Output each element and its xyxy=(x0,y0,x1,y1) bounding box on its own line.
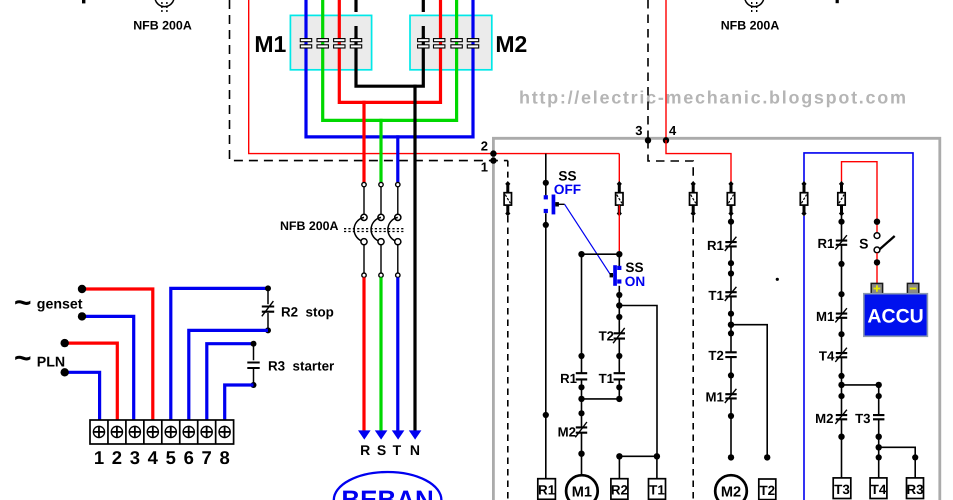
svg-text:2: 2 xyxy=(481,139,488,154)
label NFB1 200A xyxy=(133,19,192,33)
contact symbol K1b xyxy=(616,181,623,216)
wire terminal 5 to R2 contact xyxy=(171,288,268,420)
wire R2 contact to terminal 6 xyxy=(189,330,268,420)
label T2 xyxy=(599,329,614,344)
relay contact T4 group3 (NC) xyxy=(835,348,847,379)
svg-text:R3 starter: R3 starter xyxy=(268,358,335,373)
svg-text:3: 3 xyxy=(635,123,642,138)
relay contact R1 group2 (NC) xyxy=(725,237,737,277)
relay contact R3 (NO starter) xyxy=(247,341,260,388)
push button SS ON xyxy=(610,254,622,286)
svg-text:~: ~ xyxy=(14,342,32,375)
label R2 stop xyxy=(281,304,334,319)
node T3 branch xyxy=(838,382,844,388)
svg-text:PLN: PLN xyxy=(37,354,65,370)
svg-text:T2: T2 xyxy=(759,483,775,498)
node 4 PLN sense xyxy=(663,0,677,144)
node T2 branch xyxy=(728,322,734,328)
wire genset N to terminal 3 xyxy=(78,312,134,420)
svg-text:M2: M2 xyxy=(495,31,527,57)
wire stub top-right xyxy=(836,0,839,3)
battery ACCU xyxy=(864,294,928,337)
source genset symbol xyxy=(14,287,32,320)
wire branch to T3 contact xyxy=(838,382,882,478)
label M1 group2 xyxy=(705,390,723,405)
contact symbol K2b xyxy=(727,181,734,216)
svg-text:BEBAN: BEBAN xyxy=(341,485,433,500)
svg-text:NFB 200A: NFB 200A xyxy=(721,19,780,33)
wire T to load xyxy=(396,277,399,430)
node 1 xyxy=(481,157,497,174)
label M1 xyxy=(254,31,286,57)
svg-text:R2: R2 xyxy=(611,483,628,498)
label T4 group3 xyxy=(819,349,835,364)
svg-text:R1: R1 xyxy=(560,371,577,386)
wire T phase blue bus (M1-M2) xyxy=(306,0,473,137)
wire T2-T1 contact chain xyxy=(616,306,622,399)
label OFF xyxy=(554,182,581,197)
svg-text:T1: T1 xyxy=(599,371,614,386)
wire dashed K1a down xyxy=(507,216,509,500)
contact symbol K3a xyxy=(800,181,807,216)
terminal block 1-8 xyxy=(90,420,234,444)
label T1 xyxy=(599,371,614,386)
svg-text:4: 4 xyxy=(148,447,159,468)
wire red control feed to node 2 xyxy=(249,0,620,154)
source PLN symbol xyxy=(14,342,32,375)
svg-text:R3: R3 xyxy=(906,482,923,497)
svg-text:S: S xyxy=(859,235,868,251)
battery terminal minus xyxy=(907,283,918,293)
svg-text:ACCU: ACCU xyxy=(867,306,923,328)
svg-text:2: 2 xyxy=(112,447,122,468)
svg-text:R1: R1 xyxy=(538,483,556,498)
relay contact M1 group3 (NC) xyxy=(835,308,847,337)
relay contact T3 group3 (NO) xyxy=(873,415,885,460)
watermark xyxy=(519,88,908,108)
wire dashed genset neutral to node 1 xyxy=(230,0,508,161)
svg-text:T3: T3 xyxy=(834,482,850,497)
wire R drop to NFB3 xyxy=(362,101,365,182)
wire dashed node3 to K2a xyxy=(648,140,693,184)
label SS 2 xyxy=(625,260,643,275)
svg-text:T4: T4 xyxy=(871,482,887,497)
label NFB3 200A xyxy=(280,219,339,233)
label S xyxy=(859,235,868,251)
svg-text:R1: R1 xyxy=(707,238,724,253)
label T xyxy=(393,442,402,458)
wire branch to T1 coil xyxy=(619,306,657,457)
relay contact M2 (NC) xyxy=(575,422,587,457)
wire M2 coil column xyxy=(728,214,734,457)
label PLN xyxy=(37,354,65,370)
wire S drop to NFB3 xyxy=(379,119,382,182)
svg-text:1: 1 xyxy=(481,160,488,175)
svg-text:T1: T1 xyxy=(649,483,665,498)
relay contact R1 (NO) xyxy=(576,373,588,390)
node 3 genset sense xyxy=(635,0,651,144)
svg-text:8: 8 xyxy=(219,447,229,468)
svg-text:T1: T1 xyxy=(708,288,723,303)
svg-text:NFB 200A: NFB 200A xyxy=(133,19,192,33)
relay contact R2 (NC stop) xyxy=(262,285,275,333)
svg-text:M1: M1 xyxy=(572,484,592,500)
wire dashed K2a down xyxy=(692,216,694,500)
breaker NFB1 (genset main) xyxy=(155,0,174,14)
relay contact M1 group2 (NC) xyxy=(725,389,737,461)
svg-text:SS: SS xyxy=(625,260,643,275)
svg-text:genset: genset xyxy=(37,296,83,312)
label R1 xyxy=(560,371,577,386)
wire N drop to load xyxy=(413,85,416,431)
breaker NFB2 (PLN main) xyxy=(745,0,764,14)
svg-text:T4: T4 xyxy=(819,349,835,364)
wire N dashed M1 drop xyxy=(354,0,357,38)
stray dot xyxy=(776,278,779,281)
svg-text:R1: R1 xyxy=(817,236,834,251)
contactor coil M2 xyxy=(715,475,747,500)
wire N dashed M2 drop xyxy=(422,0,425,38)
label R1 group2 xyxy=(707,238,724,253)
svg-text:4: 4 xyxy=(669,123,677,138)
wire M1 coil column xyxy=(578,254,584,475)
node 2 xyxy=(481,139,497,157)
wire R3 contact to terminal 8 xyxy=(225,385,254,420)
label NFB2 200A xyxy=(721,19,780,33)
svg-text:ON: ON xyxy=(625,274,645,289)
contactor main contacts M1 and M2 xyxy=(300,39,478,48)
svg-text:3: 3 xyxy=(130,447,140,468)
label M2 xyxy=(495,31,527,57)
wire red battery positive feed xyxy=(842,162,878,233)
wire stub top-left xyxy=(82,0,85,3)
wire red node2 down to K1b xyxy=(618,154,620,184)
contactor M1 box xyxy=(290,15,371,69)
wire red node4 to K2b xyxy=(666,140,731,184)
wire blue K3a down xyxy=(803,216,805,500)
svg-text:T: T xyxy=(393,442,402,458)
wire branch to R3 coil xyxy=(879,447,919,478)
wire S to load xyxy=(379,277,382,430)
svg-text:M2: M2 xyxy=(815,411,833,426)
wire SS-OFF column upper xyxy=(543,154,549,196)
relay coil R1 xyxy=(538,479,556,500)
svg-text:~: ~ xyxy=(14,287,32,320)
relay contact T2 group2 (NO) xyxy=(725,330,737,378)
label SS xyxy=(558,168,576,183)
wire red K1b to SS-ON xyxy=(618,205,620,251)
svg-text:M2: M2 xyxy=(558,425,576,440)
wire blue battery negative feed xyxy=(804,153,913,283)
label ON xyxy=(625,274,645,289)
wire S phase green bus (M1-M2) xyxy=(323,0,457,120)
svg-text:M1: M1 xyxy=(705,390,723,405)
svg-text:T2: T2 xyxy=(599,329,614,344)
wire link M1col to SSONcol xyxy=(578,396,619,417)
svg-text:OFF: OFF xyxy=(554,182,581,197)
relay coil R2 xyxy=(611,479,628,500)
relay coil T3 xyxy=(833,478,851,499)
relay contact T1 (NO) xyxy=(613,373,625,402)
svg-text:T2: T2 xyxy=(708,348,723,363)
contact symbol K2a xyxy=(690,181,697,216)
relay coil R3 xyxy=(906,478,923,499)
contactor coil M1 xyxy=(566,475,598,500)
wire SS-ON lower xyxy=(616,286,622,309)
svg-text:M2: M2 xyxy=(721,484,741,500)
svg-text:7: 7 xyxy=(202,447,212,468)
mechanical link SS xyxy=(565,204,611,275)
label M2 xyxy=(558,425,576,440)
svg-text:R2 stop: R2 stop xyxy=(281,304,334,319)
wire T drop to NFB3 xyxy=(396,135,399,182)
relay coil T2 xyxy=(759,479,776,500)
label M2 group3 xyxy=(815,411,833,426)
label R xyxy=(360,442,370,458)
wire dashed node1 drop to K1a xyxy=(507,161,509,181)
relay coil T4 xyxy=(870,478,887,499)
svg-text:N: N xyxy=(410,442,420,458)
label R1 group3 xyxy=(817,236,834,251)
breaker NFB3 pole T xyxy=(388,182,401,277)
relay contact R1 group3 (NC) xyxy=(835,235,847,297)
wire branch to T2 coil xyxy=(731,325,770,461)
battery terminal plus xyxy=(871,283,882,293)
svg-text:http://electric-mechanic.blogs: http://electric-mechanic.blogspot.com xyxy=(519,88,908,108)
wire genset L to terminal 4 xyxy=(78,285,153,420)
wire N black bus (M1-M2) xyxy=(356,37,423,86)
wire R2-T1 coil link xyxy=(616,453,660,479)
wire terminal 7 to R3 contact xyxy=(207,344,254,420)
svg-text:NFB 200A: NFB 200A xyxy=(280,219,339,233)
svg-text:S: S xyxy=(377,442,386,458)
load BEBAN ellipse xyxy=(334,472,442,500)
label T3 group3 xyxy=(855,411,870,426)
load arrows R S T N xyxy=(358,430,421,439)
contact symbol K3b xyxy=(838,181,845,216)
switch S xyxy=(874,219,895,284)
terminal numbers 1-8 xyxy=(94,447,230,468)
svg-text:6: 6 xyxy=(184,447,194,468)
svg-text:1: 1 xyxy=(94,447,104,468)
wire R to load xyxy=(362,277,365,430)
relay contact T2 (NC) xyxy=(613,328,625,359)
relay coil T1 xyxy=(649,479,666,500)
wire PLN N to terminal 1 xyxy=(60,368,99,420)
wire R phase red bus (M1-M2) xyxy=(339,0,440,102)
contact symbol K1a xyxy=(504,181,511,216)
breaker NFB3 trip link xyxy=(344,229,405,232)
label S xyxy=(377,442,386,458)
wire PLN L to terminal 2 xyxy=(60,339,117,420)
node SS-ON junction xyxy=(578,251,622,257)
svg-text:M1: M1 xyxy=(816,309,834,324)
wire T3 coil column xyxy=(838,214,844,478)
breaker NFB3 pole S xyxy=(371,182,384,277)
label T1 group2 xyxy=(708,288,723,303)
label N xyxy=(410,442,420,458)
control panel enclosure xyxy=(493,138,939,500)
label M1 group3 xyxy=(816,309,834,324)
svg-text:M1: M1 xyxy=(254,31,286,57)
svg-text:5: 5 xyxy=(166,447,176,468)
relay contact T1 group2 (NC) xyxy=(725,287,737,317)
relay contact M2 group3 (NC) xyxy=(835,410,847,440)
svg-text:R: R xyxy=(360,442,370,458)
label R3 starter xyxy=(268,358,335,373)
breaker NFB3 pole R xyxy=(354,182,367,277)
svg-text:T3: T3 xyxy=(855,411,870,426)
wire SS-OFF column lower xyxy=(543,213,549,479)
label T2 group2 xyxy=(708,348,723,363)
contactor M2 box xyxy=(410,15,492,69)
label genset xyxy=(37,296,83,312)
push button SS OFF xyxy=(544,195,565,215)
